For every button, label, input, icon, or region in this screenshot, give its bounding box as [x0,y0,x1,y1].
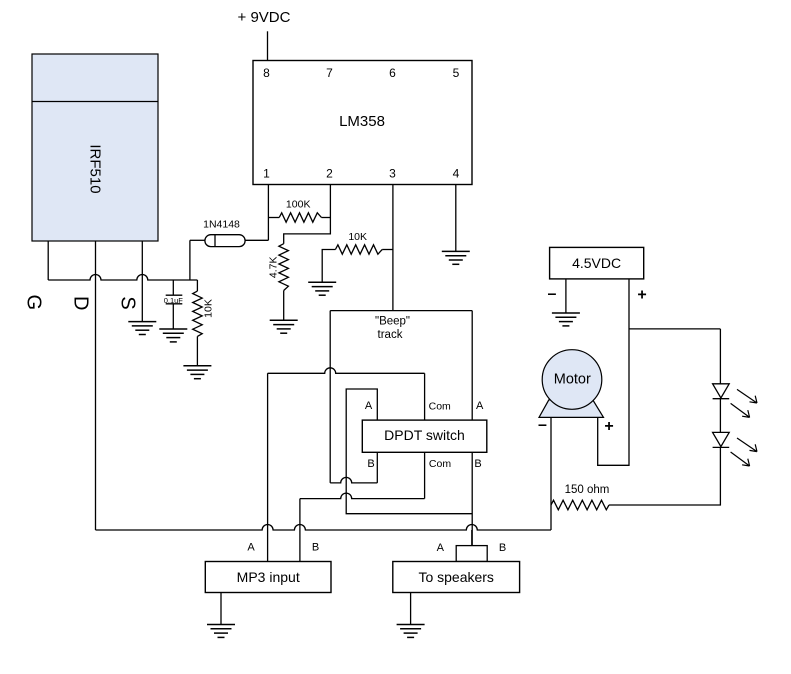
wire diode to source bus [189,240,191,280]
ground (battery) [552,312,580,314]
svg-text:MP3 input: MP3 input [237,569,300,585]
svg-text:G: G [23,295,45,311]
ground (speakers) [397,624,425,626]
svg-text:10K: 10K [348,231,367,243]
To speakers box [393,562,520,593]
wire speakers box to ground [410,593,412,625]
wire pin 1 down [267,185,269,241]
svg-text:track: track [378,329,403,341]
wire speakers feed through bus [471,530,473,546]
resistor R 100K [279,213,321,222]
ground (10K horizontal) [308,281,336,283]
wire DPDT top Com to MP3 A [424,373,426,420]
svg-text:LM358: LM358 [339,113,385,130]
LED D3 [713,432,730,446]
LED D2 [713,384,730,398]
wire DPDT B-left pin bottom [330,477,377,482]
svg-text:A: A [247,541,255,553]
LED D3 emission arrows [737,438,757,452]
svg-text:150 ohm: 150 ohm [565,484,610,496]
resistor R 10K (horizontal) [335,245,382,254]
svg-text:B: B [367,458,374,470]
svg-text:B: B [312,541,319,553]
svg-text:A: A [365,400,373,412]
svg-text:4.7K: 4.7K [268,256,280,278]
wire pin 4 down [455,185,457,252]
svg-text:4: 4 [453,167,460,181]
"Beep" track box (open bottom) [330,310,472,312]
op-amp U1 LM358 box [253,61,472,185]
battery 4.5VDC box [550,247,644,279]
wire pin 2 down and left to 4.7K [284,185,331,244]
svg-text:–: – [548,285,557,302]
svg-text:1: 1 [263,167,270,181]
svg-text:3: 3 [389,167,396,181]
wire +9VDC to pin 8 [267,31,269,60]
ground (MP3) [207,624,235,626]
resistor R 150 ohm [551,500,609,510]
gate bus wire with hops over D and S [48,275,197,281]
wire pin 3 down to beep track [392,185,394,311]
resistor R 4.7K [279,244,289,291]
svg-text:7: 7 [326,66,333,80]
svg-text:To speakers: To speakers [418,569,493,585]
svg-text:A: A [476,400,484,412]
svg-text:+ 9VDC: + 9VDC [238,9,291,26]
resistor R 10K (vertical, gate) [196,280,198,291]
wire DPDT right pins / to speakers [471,452,473,545]
svg-text:6: 6 [389,66,396,80]
wire LED D3 down to 150 ohm [609,447,720,505]
wire branch to LEDs [629,328,720,330]
svg-text:B: B [474,458,481,470]
svg-text:10K: 10K [202,299,214,318]
ground (10K gate) [183,365,211,367]
svg-text:"Beep": "Beep" [375,316,410,328]
wire DPDT bottom Com to MP3 B [424,452,426,498]
motor M1 mount bracket [539,400,604,418]
bottom common bus with hops [96,525,552,531]
pin S wire [141,241,143,322]
wire 4.7K to ground [283,291,285,321]
wire battery minus to ground [565,279,567,313]
ground (source pin) [128,321,156,323]
svg-text:+: + [604,418,613,435]
svg-text:–: – [538,417,547,434]
svg-text:1N4148: 1N4148 [203,218,240,230]
svg-text:Motor: Motor [554,371,591,387]
svg-text:2: 2 [326,167,333,181]
wire LED D2 to LED D3 [719,399,721,433]
svg-text:Com: Com [429,401,451,413]
motor M1 body [542,350,602,410]
transistor Q1 IRF510 package [32,54,158,241]
wire battery plus down and to motor plus [598,279,629,465]
svg-text:8: 8 [263,66,270,80]
svg-text:A: A [437,542,445,554]
switch SW1 DPDT box [362,420,487,452]
svg-text:+: + [637,286,646,303]
pin G wire [47,241,49,280]
capacitor C1 0.1uF [172,280,174,295]
svg-text:B: B [499,542,506,554]
svg-text:4.5VDC: 4.5VDC [572,255,621,271]
svg-text:DPDT switch: DPDT switch [384,427,465,443]
MP3 input box [205,562,331,593]
svg-text:Com: Com [429,458,451,470]
wire MP3 box to ground [220,593,222,625]
svg-text:S: S [117,296,139,309]
wire motor minus down to bus [550,417,552,530]
speaker connector notch [456,546,487,562]
ground (4.7K) [270,319,298,321]
svg-text:D: D [69,296,91,310]
svg-text:100K: 100K [286,199,311,211]
LED D2 emission arrows [737,389,757,403]
svg-text:IRF510: IRF510 [87,144,104,193]
crossover wire DPDT A-left to B-right [346,389,472,514]
ground (cap) [159,328,187,330]
svg-text:5: 5 [453,66,460,80]
ground (pin 4) [442,250,470,252]
pin D wire (down to bottom bus) [95,241,97,530]
